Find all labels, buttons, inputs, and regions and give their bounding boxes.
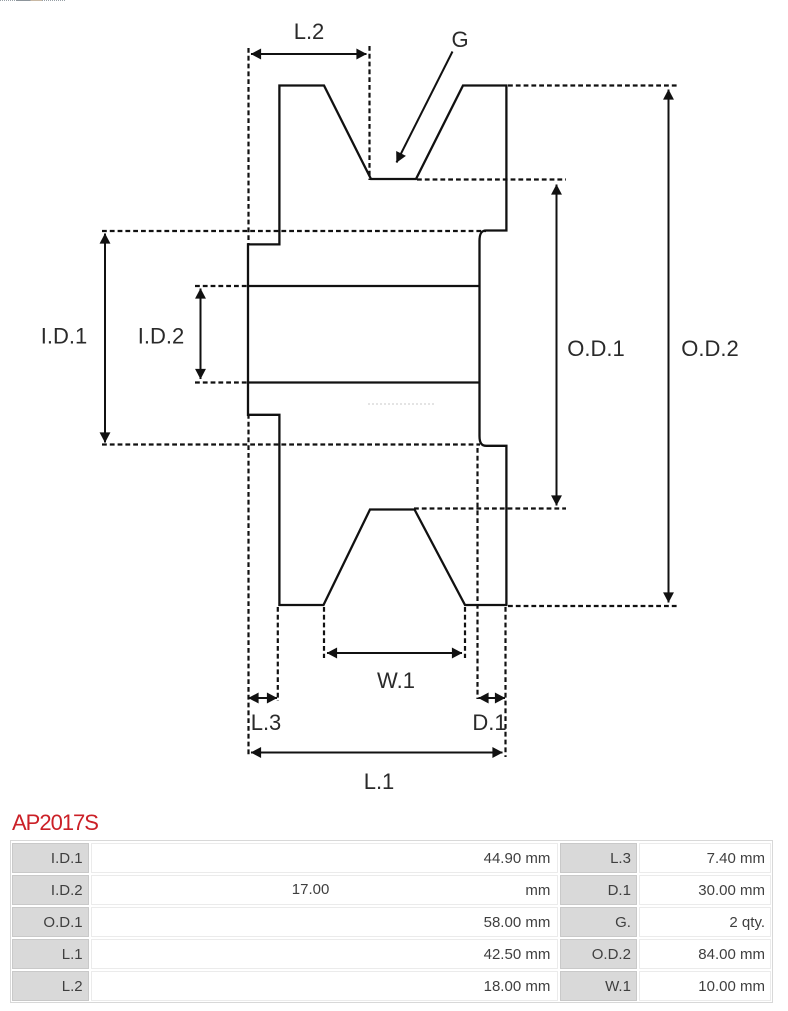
extension line O.D.2 bottom y=604.5 — [508, 605, 679, 607]
pulley outline — [248, 86, 506, 606]
extension line I.D.1 bottom y=444 — [102, 443, 480, 445]
svg-text:W.1: W.1 — [377, 668, 415, 693]
dimension I.D.2 arrow — [200, 289, 202, 380]
dimension D.1 arrow — [479, 697, 506, 699]
svg-text:L.1: L.1 — [364, 769, 395, 794]
spec table — [10, 841, 773, 1003]
watermark faint line — [368, 403, 436, 405]
svg-text:O.D.1: O.D.1 — [567, 336, 624, 361]
svg-text:L.2: L.2 — [294, 19, 325, 44]
extension line I.D.2 top left y=286 — [195, 285, 248, 287]
svg-text:I.D.1: I.D.1 — [41, 324, 87, 349]
dimension O.D.1 arrow — [556, 185, 558, 506]
dimension O.D.2 arrow — [668, 90, 670, 603]
extension line L.3 right vertical x=277.8 — [277, 607, 279, 701]
extension line O.D.1 top y=179.5 — [417, 178, 566, 180]
leader arrow G — [397, 52, 453, 163]
part number heading — [12, 810, 98, 835]
svg-text:D.1: D.1 — [472, 710, 506, 735]
bore top line — [248, 285, 480, 287]
svg-text:G: G — [451, 27, 468, 52]
svg-text:O.D.2: O.D.2 — [681, 336, 738, 361]
extension line I.D.1 top y=231 — [102, 230, 486, 232]
dimension L.3 arrow — [249, 697, 278, 699]
extension line D.1 left vertical x=477.5 — [476, 448, 478, 699]
extension line L.2 right vertical x=369.5 — [368, 46, 370, 180]
extension line D.1 right vertical x=505.5 — [504, 607, 506, 757]
extension line W.1 right vertical x=465 — [464, 607, 466, 658]
extension line left vertical x=248 upper — [247, 48, 249, 245]
extension line O.D.1 bottom y=508.5 — [414, 507, 566, 509]
extension line left vertical x=248 lower — [247, 414, 249, 757]
extension line W.1 left vertical x=324 — [323, 607, 325, 658]
dimension W.1 arrow — [327, 652, 462, 654]
spec table outer border — [10, 840, 773, 1003]
extension line I.D.2 bottom left y=382.5 — [195, 381, 248, 383]
dimension L.1 arrow — [251, 752, 503, 754]
dimension I.D.1 arrow — [104, 234, 106, 443]
svg-text:I.D.2: I.D.2 — [138, 324, 184, 349]
svg-text:L.3: L.3 — [251, 710, 282, 735]
extension line O.D.2 top y=85.5 — [508, 84, 679, 86]
dimension L.2 arrow — [251, 53, 367, 55]
bore bottom line — [248, 381, 480, 383]
top-left dotted artifact — [0, 0, 66, 2]
